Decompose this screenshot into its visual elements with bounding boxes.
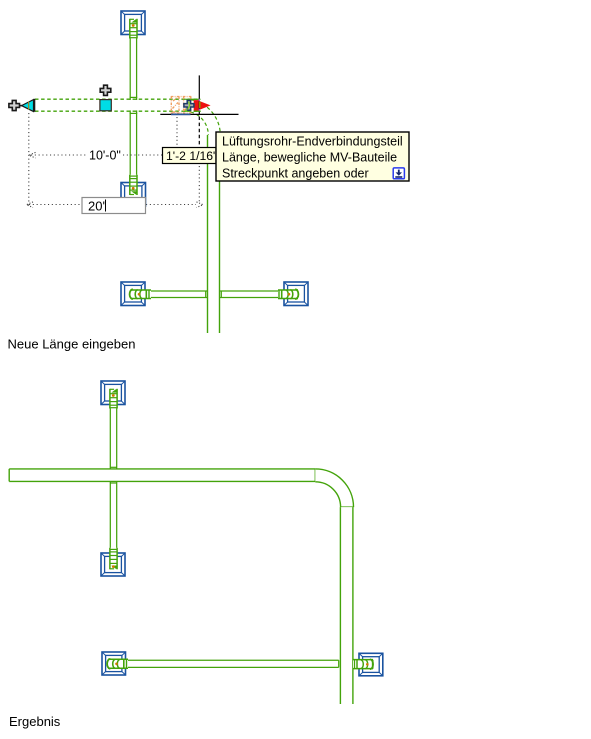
vertical duct B (medium, right) bbox=[208, 135, 220, 333]
purple overlap ticks bbox=[198, 99, 200, 101]
mid diffuser D6 bbox=[101, 553, 125, 576]
end-cap ladder symbol L1 in D1 bbox=[130, 19, 138, 39]
left diffuser D3 bbox=[121, 282, 145, 306]
tooltip down-arrow icon bbox=[393, 168, 404, 179]
ghost duct dashed lines bbox=[35, 99, 199, 111]
end-cap ladder symbol L2 in D2 (mirrored up) bbox=[130, 175, 138, 195]
top diffuser D1 (blue double square) bbox=[121, 11, 145, 35]
crosshair cursor bbox=[160, 75, 238, 114]
green duct edge over arrow bbox=[191, 98, 201, 100]
ladder symbol L6 in D6 (mirrored) bbox=[110, 548, 118, 570]
flange ticks of duct E at duct F bbox=[110, 467, 116, 483]
dim arrow right (20') bbox=[197, 202, 204, 208]
input box 20' bbox=[82, 198, 146, 214]
gray dotted extension below input box at cursor x bbox=[198, 166, 200, 203]
big vertical duct H bbox=[340, 507, 353, 704]
svg-text:Neue Länge eingeben: Neue Länge eingeben bbox=[8, 337, 136, 352]
flange ticks duct C at duct B bbox=[206, 291, 222, 298]
svg-text:Streckpunkt angeben oder: Streckpunkt angeben oder bbox=[222, 167, 369, 181]
dashed black extension below cursor bbox=[198, 117, 200, 148]
tooltip bbox=[216, 132, 409, 181]
dimension line 10'-0" bbox=[31, 154, 162, 156]
bottom thin duct I bbox=[128, 660, 358, 667]
svg-text:Ergebnis: Ergebnis bbox=[9, 714, 61, 729]
svg-text:1'-2 1/16": 1'-2 1/16" bbox=[166, 149, 217, 163]
dimension line 20' bbox=[29, 204, 196, 206]
dimension extension line left bbox=[28, 113, 30, 207]
bottom-right diffuser D8 bbox=[359, 653, 383, 676]
end-cap arcs in D3 (pointing left) bbox=[130, 289, 151, 299]
vertical duct A (thin, through both top diffusers) bbox=[130, 22, 138, 177]
olive xor band on arrow at crosshair bbox=[199, 101, 201, 108]
svg-text:Länge, bewegliche MV-Bauteile: Länge, bewegliche MV-Bauteile bbox=[222, 151, 397, 165]
end-cap arcs in D4 (pointing right) bbox=[278, 289, 298, 299]
vertical thin duct E bbox=[110, 392, 116, 548]
orange ghost fitting (dash-dot) bbox=[171, 97, 192, 114]
dim arrow left (10'-0") bbox=[29, 152, 36, 158]
svg-text:20': 20' bbox=[88, 199, 105, 214]
flange ticks of duct I at duct H bbox=[339, 660, 355, 667]
red arrow grip bbox=[194, 100, 211, 111]
end-cap arcs in D7 (pointing left) bbox=[107, 659, 128, 669]
blue selected edge segment on crosshair bbox=[171, 113, 191, 115]
grip plus P3 (hover, navy outline) bbox=[184, 100, 194, 110]
grip plus P2 (above cyan square) bbox=[100, 85, 111, 95]
dim arrow left (20') bbox=[26, 202, 33, 208]
svg-text:10'-0": 10'-0" bbox=[89, 149, 121, 163]
dimension extension line x=177 bbox=[176, 117, 178, 152]
end-cap arcs in D8 (pointing right) bbox=[353, 659, 373, 669]
cyan square grip bbox=[100, 100, 111, 111]
right diffuser D4 bbox=[284, 282, 308, 306]
horizontal duct C (middle) bbox=[133, 291, 296, 298]
dynamic input box 1'-2 1/16" bbox=[163, 148, 218, 164]
bottom-left diffuser D7 bbox=[102, 652, 126, 675]
bottom diffuser D2 bbox=[121, 183, 146, 207]
grip plus P1 (far left) bbox=[9, 100, 20, 110]
svg-text:Lüftungsrohr-Endverbindungstei: Lüftungsrohr-Endverbindungsteil bbox=[222, 135, 403, 149]
big horizontal duct F bbox=[9, 469, 315, 482]
ghost elbow dashed arc bbox=[185, 99, 221, 135]
ghost duct white interior over duct A crossing bbox=[120, 100, 145, 110]
ladder symbol L5 in D5 bbox=[110, 389, 118, 409]
elbow G bbox=[315, 469, 353, 507]
top diffuser D5 bbox=[101, 381, 125, 405]
lime snap marks on grip bbox=[188, 102, 190, 110]
cyan triangle grip (left arrow) bbox=[20, 99, 35, 112]
